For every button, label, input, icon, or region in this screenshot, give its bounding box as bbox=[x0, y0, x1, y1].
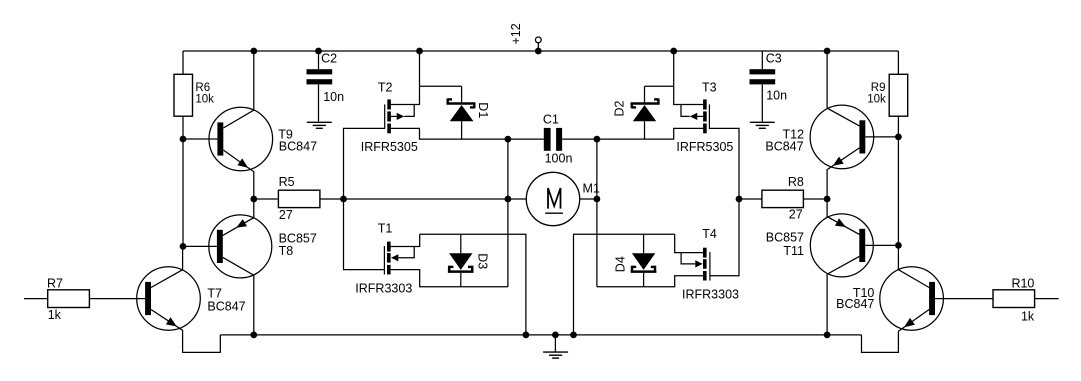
svg-text:10n: 10n bbox=[766, 88, 787, 102]
diode D2 (schottky) bbox=[631, 86, 674, 139]
junction top rail / T9 collector bbox=[250, 48, 257, 55]
svg-text:T11: T11 bbox=[783, 244, 804, 258]
junction ground rail / D3 branch bbox=[523, 332, 530, 339]
resistor R7 bbox=[24, 290, 145, 308]
svg-text:T8: T8 bbox=[279, 244, 294, 258]
junction R8 / T3 T4 gates bbox=[736, 196, 743, 203]
svg-text:C1: C1 bbox=[543, 113, 559, 127]
svg-text:D4: D4 bbox=[614, 256, 628, 272]
junction T9 base node bbox=[180, 136, 187, 143]
junction top rail / +12 bbox=[535, 48, 542, 55]
capacitor C2 bbox=[307, 51, 333, 121]
resistor R6 bbox=[174, 74, 193, 116]
diode D1 (schottky) bbox=[420, 86, 476, 139]
junction ground rail / T8 collector bbox=[250, 332, 257, 339]
svg-text:T2: T2 bbox=[378, 81, 393, 95]
wire T8 base bbox=[183, 245, 217, 247]
junction T8 base / T7 collector node bbox=[180, 243, 187, 250]
wire motor-right column bbox=[596, 139, 598, 287]
resistor R8 bbox=[739, 190, 827, 207]
svg-text:D2: D2 bbox=[613, 100, 627, 116]
wire T7 emitter to ground rail bbox=[183, 330, 221, 352]
capacitor C3 bbox=[750, 51, 776, 121]
resistor R10 bbox=[935, 290, 1059, 308]
wire T2 drain to motor node bbox=[391, 128, 508, 139]
wire T2 gate bbox=[344, 128, 385, 199]
wire motor-left column bbox=[507, 139, 509, 287]
junction motor-right terminal bbox=[594, 196, 601, 203]
wire T4 gate bbox=[711, 199, 740, 276]
svg-text:BC847: BC847 bbox=[765, 139, 803, 153]
svg-text:10n: 10n bbox=[323, 90, 344, 104]
wire top +12 rail bbox=[183, 50, 898, 52]
capacitor C1 bbox=[508, 128, 597, 151]
svg-text:BC847: BC847 bbox=[279, 140, 317, 154]
wire T12 base bbox=[865, 136, 898, 138]
ground (C3) bbox=[750, 122, 775, 128]
transistor T8 (BC857 PNP) bbox=[209, 199, 272, 335]
svg-text:1k: 1k bbox=[1021, 309, 1035, 323]
junction motor-left terminal bbox=[505, 196, 512, 203]
svg-text:BC847: BC847 bbox=[207, 299, 245, 313]
power terminal +12 bbox=[535, 37, 541, 51]
wire T10 emitter to ground rail bbox=[862, 331, 899, 352]
junction R5 / T1 T2 gates bbox=[340, 196, 347, 203]
wire T3 drain to motor node bbox=[597, 128, 703, 139]
svg-text:M1: M1 bbox=[583, 181, 600, 195]
wire T3 gate bbox=[710, 128, 739, 199]
junction R5 / T9 emitter / T8 emitter bbox=[250, 196, 257, 203]
transistor T9 (BC847 NPN) bbox=[209, 51, 273, 199]
svg-text:27: 27 bbox=[279, 208, 293, 222]
svg-text:D1: D1 bbox=[476, 102, 490, 118]
svg-text:1k: 1k bbox=[48, 308, 62, 322]
junction R8 / T12 emitter / T11 emitter bbox=[824, 196, 831, 203]
svg-text:R7: R7 bbox=[47, 276, 63, 290]
junction ground rail / T11 collector bbox=[824, 332, 831, 339]
transistor T4 (IRFR3303 N-MOSFET) bbox=[681, 248, 710, 281]
wire T3 source to +12 rail bbox=[674, 51, 703, 105]
wire T4 source to ground bbox=[675, 234, 703, 252]
svg-text:10k: 10k bbox=[195, 94, 214, 106]
svg-text:T3: T3 bbox=[702, 81, 717, 95]
transistor T2 (IRFR5305 P-MOSFET) bbox=[384, 99, 414, 133]
svg-text:R9: R9 bbox=[871, 82, 886, 94]
resistor R9 bbox=[889, 74, 908, 116]
junction ground rail / ground symbol bbox=[552, 332, 559, 339]
transistor T12 (BC847 NPN) bbox=[810, 51, 874, 199]
svg-text:IRFR5305: IRFR5305 bbox=[676, 140, 733, 154]
wire T1 gate bbox=[344, 199, 384, 270]
wire ground rail bbox=[220, 334, 861, 336]
wire left bias column bbox=[182, 51, 184, 246]
transistor T3 (IRFR5305 P-MOSFET) bbox=[681, 99, 710, 133]
ground (C2) bbox=[307, 122, 332, 128]
wire T1 drain to motor node bbox=[391, 270, 508, 287]
wire T4 drain to motor node bbox=[597, 276, 703, 287]
svg-text:R6: R6 bbox=[195, 82, 210, 94]
svg-text:27: 27 bbox=[789, 208, 803, 222]
svg-text:D3: D3 bbox=[476, 253, 490, 269]
svg-text:T4: T4 bbox=[702, 227, 717, 241]
resistor R5 bbox=[254, 190, 344, 207]
junction top rail / T2 source / D1 bbox=[416, 48, 423, 55]
motor M1 bbox=[508, 172, 597, 225]
svg-text:R8: R8 bbox=[788, 175, 804, 189]
junction ground rail / D4 branch bbox=[570, 332, 577, 339]
junction top rail / C2 bbox=[315, 48, 322, 55]
wire D3 ground branch bbox=[420, 234, 526, 335]
svg-text:C2: C2 bbox=[321, 52, 337, 66]
junction motor-right / T3 drain / D2 / C1 bbox=[594, 136, 601, 143]
svg-text:T1: T1 bbox=[378, 222, 393, 236]
svg-text:C3: C3 bbox=[766, 52, 782, 66]
svg-text:+12: +12 bbox=[509, 23, 523, 44]
wire T9 base bbox=[183, 138, 217, 140]
svg-text:BC857: BC857 bbox=[766, 231, 804, 245]
svg-text:IRFR5305: IRFR5305 bbox=[361, 140, 418, 154]
transistor T1 (IRFR3303 N-MOSFET) bbox=[384, 242, 414, 275]
junction top rail / T12 collector bbox=[824, 48, 831, 55]
transistor T11 (BC857 PNP) bbox=[810, 199, 873, 335]
svg-text:T7: T7 bbox=[207, 286, 222, 300]
diode D3 (schottky) bbox=[448, 234, 474, 286]
svg-text:IRFR3303: IRFR3303 bbox=[682, 288, 739, 302]
svg-text:BC847: BC847 bbox=[836, 297, 874, 311]
svg-text:10k: 10k bbox=[867, 94, 886, 106]
junction motor-left / T2 drain / D1 / C1 bbox=[505, 136, 512, 143]
wire T11 base bbox=[865, 244, 898, 246]
svg-text:100n: 100n bbox=[545, 151, 573, 165]
wire T2 source to +12 rail bbox=[391, 51, 420, 105]
transistor T7 (BC847 NPN) bbox=[137, 246, 201, 330]
svg-text:R5: R5 bbox=[279, 175, 295, 189]
svg-text:R10: R10 bbox=[1011, 276, 1034, 290]
ground (main) bbox=[543, 335, 568, 358]
junction T12 base node bbox=[895, 134, 902, 141]
wire T1 source to ground bbox=[391, 234, 420, 246]
svg-text:IRFR3303: IRFR3303 bbox=[355, 281, 412, 295]
diode D4 (schottky) bbox=[631, 234, 657, 286]
wire gate node to motor-left bbox=[344, 198, 508, 200]
wire D4 ground branch bbox=[574, 234, 675, 335]
transistor T10 (BC847 NPN) bbox=[880, 245, 944, 331]
wire right bias column bbox=[897, 51, 899, 245]
junction T11 base / T10 collector node bbox=[895, 242, 902, 249]
junction top rail / T3 source / D2 bbox=[670, 48, 677, 55]
